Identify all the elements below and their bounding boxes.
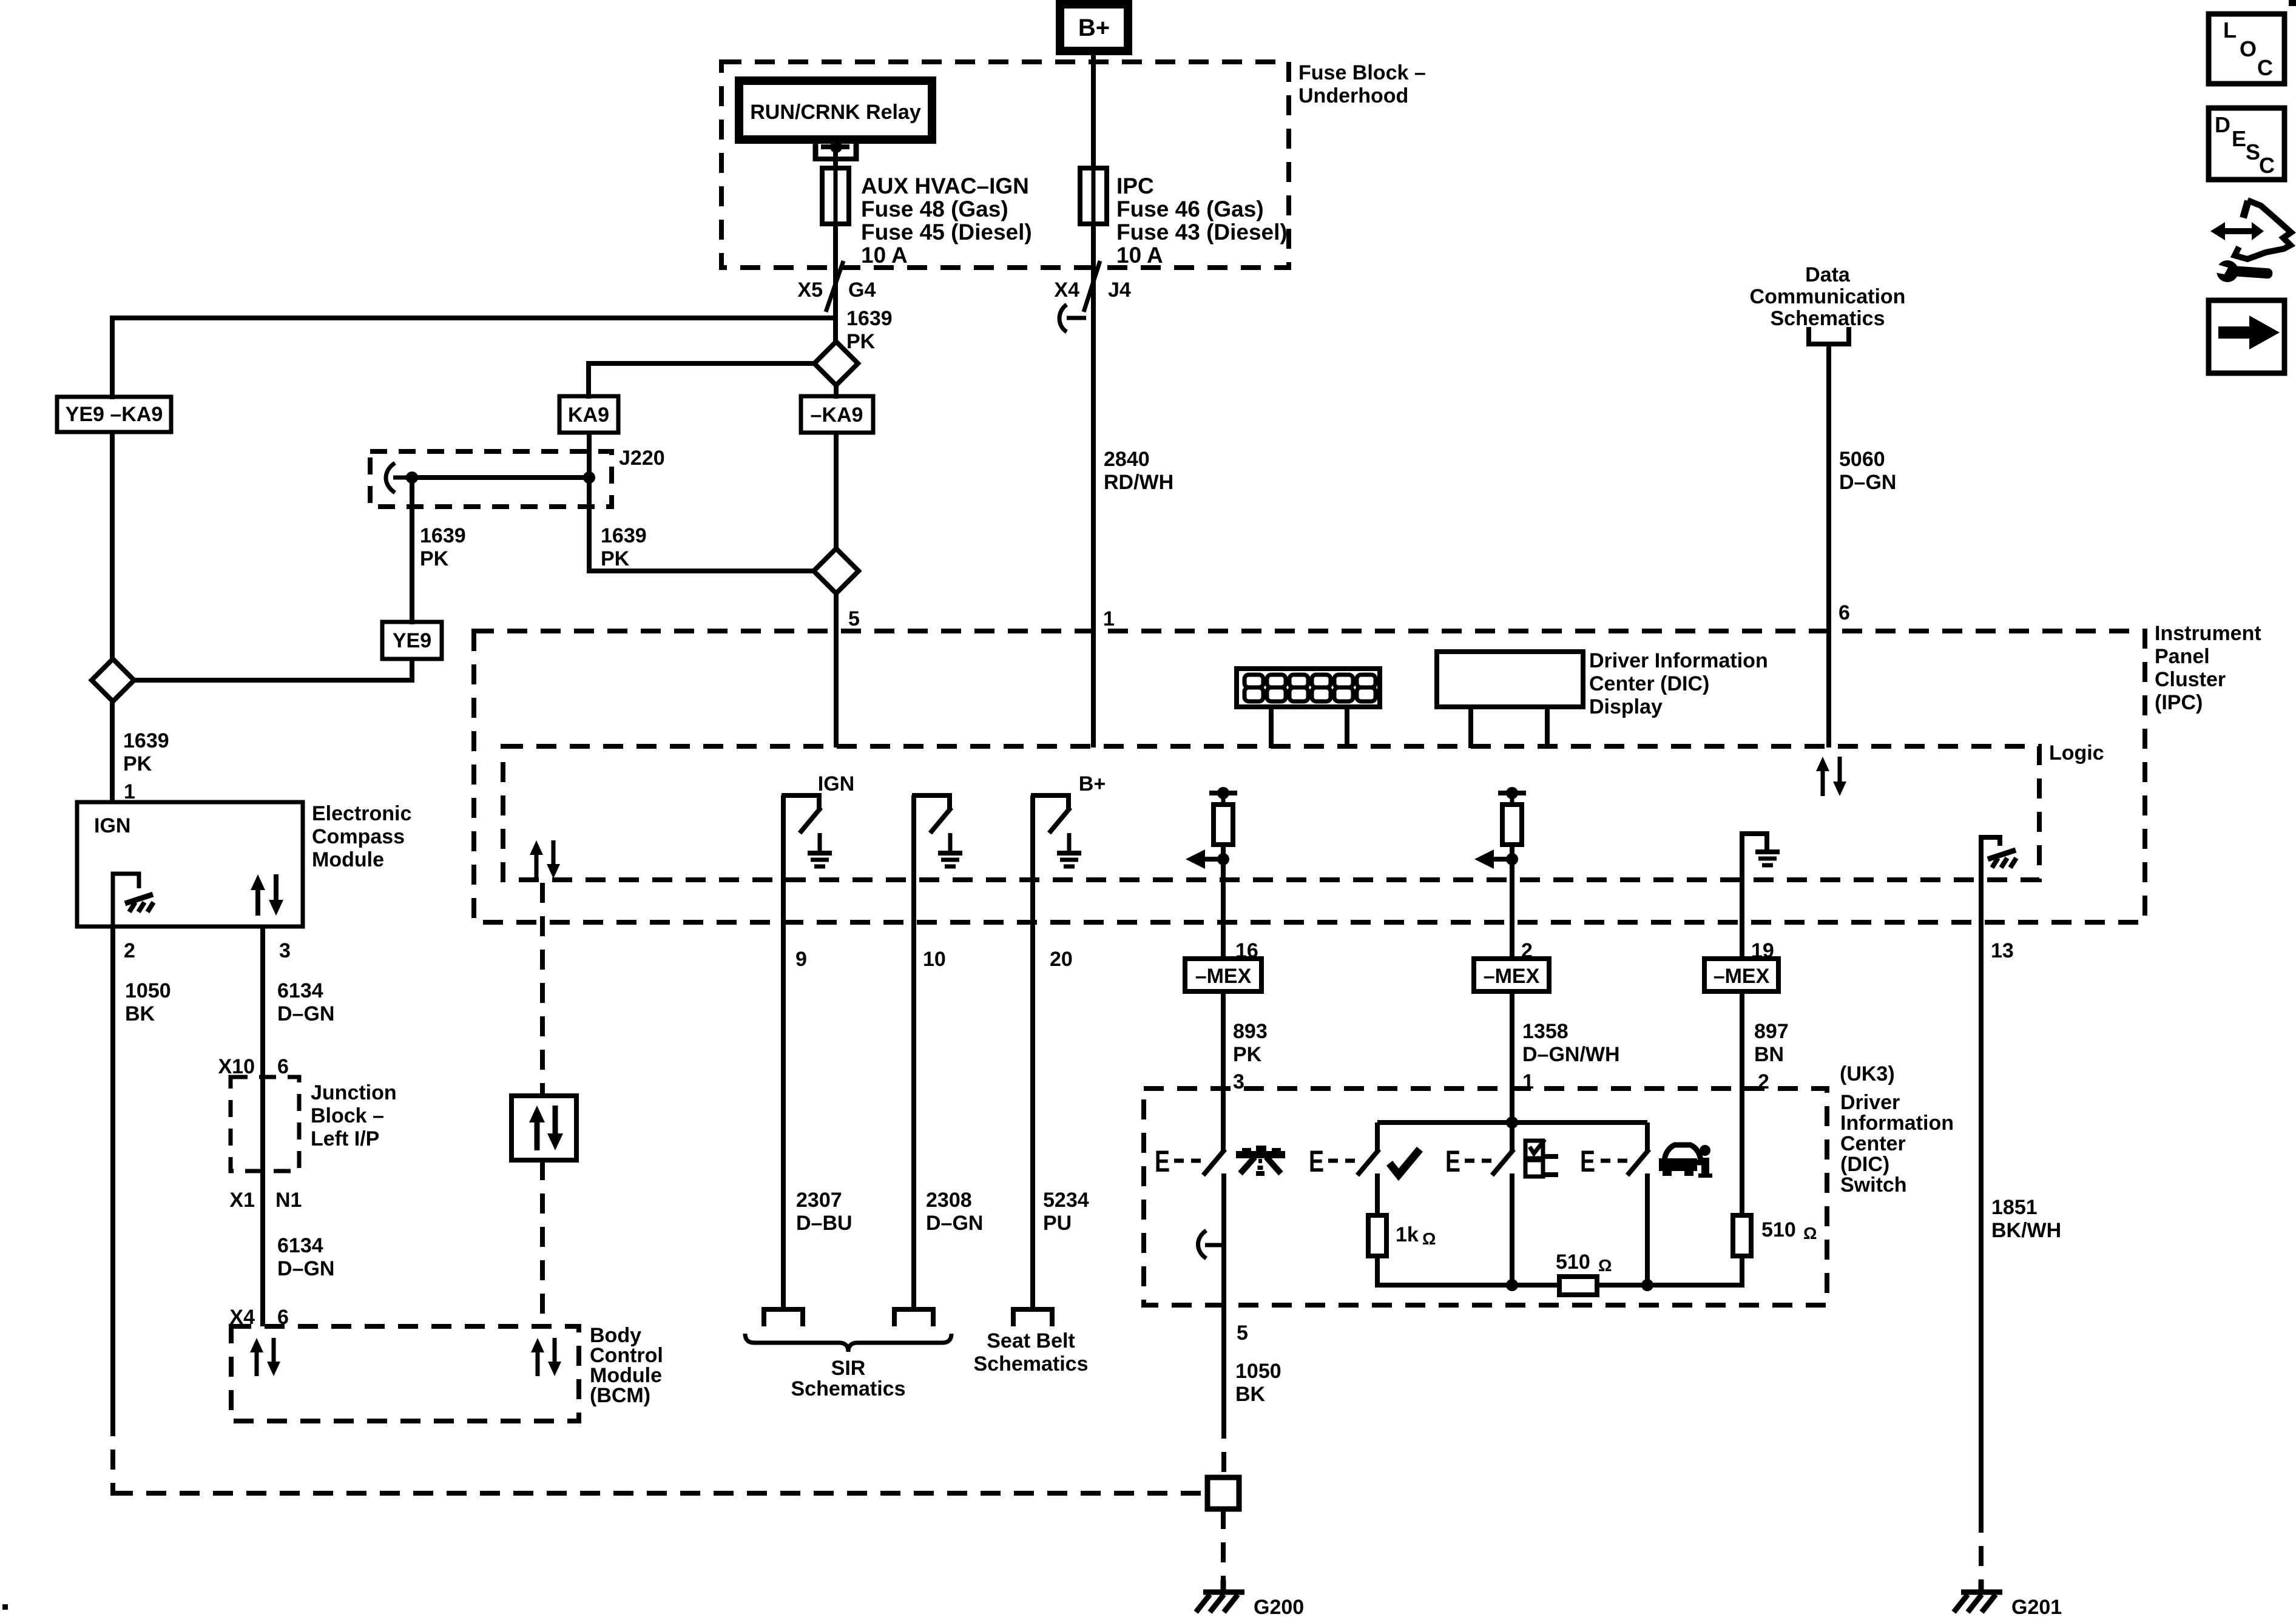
svg-text:Logic: Logic <box>2049 741 2104 765</box>
svg-text:Fuse 46 (Gas): Fuse 46 (Gas) <box>1116 197 1264 221</box>
inline connector hook in J220 <box>386 463 405 493</box>
svg-text:1639: 1639 <box>846 307 893 330</box>
dashed ground distribution line <box>113 1491 1205 1496</box>
wire fuse 48 to splice S1 <box>833 224 838 343</box>
wire J220 to YE9 <box>410 478 414 624</box>
splice pack square <box>1207 1477 1239 1509</box>
svg-text:Schematics: Schematics <box>791 1377 906 1400</box>
svg-text:(BCM): (BCM) <box>590 1384 650 1407</box>
BCM serial arrows left <box>250 1338 280 1376</box>
svg-text:Data: Data <box>1805 263 1851 286</box>
svg-text:BN: BN <box>1754 1043 1784 1066</box>
wire bottom link bar <box>1377 1283 1742 1288</box>
legend box LOC <box>2209 14 2284 84</box>
svg-text:1358: 1358 <box>1522 1020 1568 1043</box>
svg-text:Electronic: Electronic <box>312 802 411 825</box>
svg-text:1851: 1851 <box>1991 1196 2038 1219</box>
svg-text:E: E <box>1580 1144 1595 1178</box>
switch to ground pin 20 <box>1031 795 1071 1309</box>
svg-text:5: 5 <box>848 607 860 630</box>
icon checkmark <box>1389 1149 1420 1175</box>
svg-text:1639: 1639 <box>420 524 466 547</box>
svg-text:Ω: Ω <box>1422 1229 1436 1248</box>
svg-text:G201: G201 <box>2011 1596 2062 1617</box>
Electronic Compass Module box <box>77 802 303 927</box>
svg-text:Fuse Block –: Fuse Block – <box>1298 61 1426 84</box>
resistor R 1k <box>1368 1215 1386 1256</box>
off-page connector bracket <box>894 1309 933 1326</box>
svg-text:RD/WH: RD/WH <box>1104 471 1173 494</box>
svg-text:PK: PK <box>1233 1043 1262 1066</box>
svg-text:3: 3 <box>279 939 291 962</box>
legend box DESC <box>2209 108 2284 180</box>
svg-text:(UK3): (UK3) <box>1840 1062 1895 1085</box>
svg-text:510: 510 <box>1556 1251 1590 1274</box>
Body Control Module BCM dashed box <box>231 1326 579 1421</box>
svg-text:PK: PK <box>601 547 630 570</box>
off-page connector bracket <box>764 1309 803 1326</box>
telltale driver pin 16 <box>1186 787 1237 959</box>
fuse F48 AUX HVAC-IGN <box>822 168 849 224</box>
svg-text:X10: X10 <box>218 1055 255 1078</box>
BCM serial arrows right <box>531 1338 561 1376</box>
Fuse Block - Underhood dashed box <box>721 62 1289 268</box>
svg-text:Instrument: Instrument <box>2155 622 2261 645</box>
wire 1050 BK from compass pin 2 <box>110 927 115 1416</box>
wire B+ down to IPC fuse <box>1091 51 1096 170</box>
compass internal ground trace <box>113 874 139 927</box>
svg-text:Center: Center <box>1840 1132 1906 1155</box>
Junction Block - Left I/P dashed box <box>231 1077 299 1171</box>
svg-text:PU: PU <box>1043 1212 1072 1235</box>
svg-text:X4: X4 <box>1054 279 1079 302</box>
svg-text:D–GN: D–GN <box>1839 471 1896 494</box>
junction dot top bar <box>1506 1116 1518 1129</box>
wire relay to fuse 48 <box>833 149 838 170</box>
svg-text:Ω: Ω <box>1803 1224 1817 1243</box>
icon trip odometer <box>1236 1146 1285 1176</box>
ground G201 <box>1954 1580 2002 1612</box>
dash E1b <box>1191 1159 1201 1163</box>
svg-text:Schematics: Schematics <box>1771 307 1885 330</box>
wire 897 BN through 510 ohm <box>1740 991 1744 1288</box>
switch to ground pin 9 <box>782 795 822 1309</box>
svg-text:C: C <box>2257 55 2273 80</box>
svg-text:6134: 6134 <box>277 1234 323 1257</box>
svg-text:10 A: 10 A <box>861 243 908 268</box>
resistor R 510 horizontal <box>1559 1277 1597 1295</box>
wire inside J220 <box>405 475 590 480</box>
svg-text:PK: PK <box>123 752 152 775</box>
wire KA9 down through J220 <box>587 433 592 573</box>
wire 1050 BK dashed to splice pack <box>1221 1419 1226 1477</box>
icon car info <box>1659 1145 1712 1178</box>
svg-text:X1: X1 <box>229 1189 255 1212</box>
svg-text:510: 510 <box>1761 1218 1796 1241</box>
svg-text:(IPC): (IPC) <box>2155 691 2203 714</box>
svg-text:6: 6 <box>1838 601 1850 624</box>
svg-text:SIR: SIR <box>831 1357 866 1380</box>
svg-text:Junction: Junction <box>311 1081 397 1104</box>
svg-text:J4: J4 <box>1108 279 1131 302</box>
svg-text:B+: B+ <box>1079 772 1106 795</box>
svg-text:O: O <box>2240 36 2257 61</box>
svg-text:10 A: 10 A <box>1116 243 1163 268</box>
svg-text:1639: 1639 <box>123 729 169 752</box>
dash E2a <box>1328 1159 1338 1163</box>
svg-text:BK/WH: BK/WH <box>1991 1219 2061 1242</box>
net box KA9 <box>559 396 618 433</box>
svg-text:Module: Module <box>312 848 384 871</box>
svg-text:J220: J220 <box>619 447 665 470</box>
wire 1050 BK dashed <box>110 1416 115 1496</box>
icon checklist <box>1525 1139 1558 1176</box>
junction dot J220 left <box>406 471 418 484</box>
connector box -MEX pin 2 <box>1474 959 1549 991</box>
wire left trunk to S3 <box>110 432 115 661</box>
svg-text:RUN/CRNK Relay: RUN/CRNK Relay <box>750 101 921 124</box>
svg-text:L: L <box>2223 18 2237 42</box>
dashed serial data line IPC to arrow box <box>540 883 545 1096</box>
svg-text:Ω: Ω <box>1598 1256 1612 1275</box>
wire KA9 leg to S2 <box>589 569 814 573</box>
wire top link bar <box>1377 1120 1647 1125</box>
svg-text:KA9: KA9 <box>568 403 609 427</box>
svg-text:20: 20 <box>1050 948 1073 971</box>
svg-text:G4: G4 <box>848 279 876 302</box>
svg-text:2307: 2307 <box>796 1189 842 1212</box>
svg-text:S: S <box>2246 140 2260 164</box>
switch menu-select <box>1492 991 1514 1288</box>
wire 1k to bottom bar <box>1375 1256 1380 1288</box>
splice S1 <box>814 342 858 385</box>
Logic dashed box <box>503 746 2039 880</box>
icon connector-end-view with wrench <box>2210 200 2291 282</box>
svg-text:G200: G200 <box>1254 1596 1304 1617</box>
serial data arrow box <box>512 1096 576 1160</box>
Driver Information Center DIC Switch dashed box <box>1144 1089 1827 1305</box>
logic serial arrows <box>530 840 560 879</box>
svg-text:1050: 1050 <box>1235 1360 1281 1383</box>
Instrument Panel Cluster IPC dashed box <box>474 631 2145 922</box>
dashed serial data line arrow box to BCM <box>540 1160 545 1326</box>
fuse F46 IPC <box>1080 168 1107 224</box>
svg-text:YE9 –KA9: YE9 –KA9 <box>66 403 163 426</box>
inline connector hook at J4 <box>1059 305 1086 332</box>
svg-text:2: 2 <box>124 939 135 962</box>
wire S1 to KA9 <box>589 363 814 399</box>
svg-text:Information: Information <box>1840 1112 1954 1135</box>
svg-text:N1: N1 <box>275 1189 302 1212</box>
relay RUN/CRNK <box>739 81 932 140</box>
svg-text:D–GN: D–GN <box>277 1002 334 1025</box>
dash E4a <box>1601 1159 1610 1163</box>
svg-text:Block –: Block – <box>311 1104 384 1127</box>
compass serial data arrows <box>251 874 283 916</box>
svg-text:Seat Belt: Seat Belt <box>987 1329 1075 1352</box>
svg-text:1639: 1639 <box>601 524 647 547</box>
ground G200 <box>1196 1580 1244 1612</box>
svg-text:D–GN: D–GN <box>926 1212 983 1235</box>
wire S3 to compass pin 1 <box>110 701 115 802</box>
svg-text:X5: X5 <box>797 279 823 302</box>
svg-text:Display: Display <box>1589 695 1663 718</box>
DIC seven-segment display <box>1237 669 1380 707</box>
svg-text:BK: BK <box>125 1002 155 1025</box>
chassis ground pin 13 <box>1981 835 2000 1513</box>
svg-text:Schematics: Schematics <box>974 1352 1089 1376</box>
connector box -MEX pin 19 <box>1704 959 1778 991</box>
wire IGN into IPC <box>834 593 839 748</box>
svg-text:D–BU: D–BU <box>796 1212 853 1235</box>
switch acknowledge <box>1357 1122 1379 1218</box>
off-page connector bracket <box>1809 327 1849 344</box>
wire YE9 to splice S3 <box>134 659 412 680</box>
svg-text:–KA9: –KA9 <box>811 403 863 427</box>
page dot artifact <box>2 1604 8 1610</box>
dash E1a <box>1174 1159 1184 1163</box>
svg-text:Fuse 45 (Diesel): Fuse 45 (Diesel) <box>861 220 1032 245</box>
svg-text:(DIC): (DIC) <box>1840 1153 1889 1176</box>
ground hook pin 19 <box>1742 831 1767 959</box>
svg-text:–MEX: –MEX <box>1195 965 1252 988</box>
serial arrows at pin 6 <box>1816 757 1846 796</box>
splice S3 <box>92 659 134 701</box>
display leg right <box>1345 707 1349 748</box>
off-page connector bracket <box>1013 1309 1052 1326</box>
svg-text:897: 897 <box>1754 1020 1789 1043</box>
svg-text:13: 13 <box>1991 939 2014 962</box>
svg-text:YE9: YE9 <box>393 629 431 652</box>
svg-text:1: 1 <box>124 780 135 803</box>
connector X4-J4 slash <box>1084 261 1100 312</box>
svg-text:E: E <box>1155 1144 1170 1178</box>
junction dot bottom bar left <box>1506 1279 1518 1291</box>
dashed wire to G201 <box>1979 1513 1984 1580</box>
svg-text:BK: BK <box>1235 1383 1266 1406</box>
legend box next-page arrow <box>2209 300 2284 373</box>
svg-text:C: C <box>2259 153 2275 178</box>
junction block J220 dashed box <box>370 451 612 507</box>
svg-text:Center (DIC): Center (DIC) <box>1589 672 1709 695</box>
svg-text:Driver: Driver <box>1840 1091 1900 1114</box>
DIC display box <box>1437 652 1583 707</box>
svg-text:5234: 5234 <box>1043 1189 1089 1212</box>
svg-text:E: E <box>1445 1144 1460 1178</box>
switch trip-reset <box>1203 991 1225 1419</box>
junction dot J220 right <box>583 471 595 484</box>
svg-text:3: 3 <box>1233 1070 1244 1093</box>
wire 1639 PK long run to YE9-KA9 <box>112 318 836 399</box>
inline connector hook below switch 1 <box>1198 1230 1222 1258</box>
svg-text:D–GN: D–GN <box>277 1257 334 1280</box>
switch vehicle-information <box>1627 1122 1649 1288</box>
svg-text:PK: PK <box>420 547 449 570</box>
junction dot bottom bar right <box>1641 1279 1653 1291</box>
svg-text:1k: 1k <box>1396 1223 1419 1246</box>
net box YE9 <box>382 622 442 659</box>
splice S2 <box>814 549 859 593</box>
brace SIR <box>745 1334 951 1352</box>
svg-text:1050: 1050 <box>125 979 171 1002</box>
dash E4b <box>1618 1159 1627 1163</box>
connector X5-G4 slash <box>826 261 843 312</box>
svg-text:–MEX: –MEX <box>1714 965 1770 988</box>
DIC display leg left <box>1468 707 1473 748</box>
svg-text:D: D <box>2215 112 2230 137</box>
svg-text:IGN: IGN <box>94 814 130 837</box>
svg-text:AUX HVAC–IGN: AUX HVAC–IGN <box>861 174 1029 198</box>
svg-text:E: E <box>1309 1144 1324 1178</box>
wire -KA9 to splice S2 <box>834 433 839 551</box>
wire 6134 D-GN pin 3 to BCM <box>260 927 265 1326</box>
svg-text:6: 6 <box>277 1055 289 1078</box>
svg-text:Communication: Communication <box>1750 285 1906 308</box>
svg-text:5: 5 <box>1237 1322 1248 1345</box>
wire S1 to -KA9 <box>834 385 839 399</box>
svg-text:10: 10 <box>923 948 946 971</box>
DIC display leg right <box>1545 707 1550 748</box>
resistor R 510 right <box>1733 1215 1751 1256</box>
svg-text:Left I/P: Left I/P <box>311 1127 379 1150</box>
dashed wire to G200 <box>1221 1509 1226 1580</box>
dash E3a <box>1465 1159 1474 1163</box>
relay output pin bracket <box>813 140 859 161</box>
svg-text:IGN: IGN <box>818 772 854 795</box>
switch to ground pin 10 <box>912 795 952 1309</box>
svg-text:6134: 6134 <box>277 979 323 1002</box>
svg-text:2840: 2840 <box>1104 448 1150 471</box>
svg-text:–MEX: –MEX <box>1484 965 1540 988</box>
svg-text:D–GN/WH: D–GN/WH <box>1522 1043 1620 1066</box>
svg-text:Fuse 48 (Gas): Fuse 48 (Gas) <box>861 197 1008 221</box>
svg-text:Fuse 43 (Diesel): Fuse 43 (Diesel) <box>1116 220 1288 245</box>
svg-text:PK: PK <box>846 330 876 353</box>
power feed B+ box <box>1060 4 1128 51</box>
svg-text:E: E <box>2232 126 2246 151</box>
net box YE9 -KA9 <box>57 397 171 432</box>
svg-text:Panel: Panel <box>2155 645 2210 668</box>
wire 2840 RD/WH B+ to IPC <box>1091 224 1096 748</box>
compass internal chassis ground <box>125 894 154 912</box>
telltale driver pin 2 <box>1474 787 1526 959</box>
svg-text:B+: B+ <box>1078 15 1110 41</box>
wire 5060 D-GN <box>1826 344 1831 748</box>
svg-text:2308: 2308 <box>926 1189 972 1212</box>
svg-text:Compass: Compass <box>312 825 405 848</box>
svg-text:IPC: IPC <box>1116 174 1154 198</box>
svg-text:Cluster: Cluster <box>2155 668 2226 691</box>
svg-text:Switch: Switch <box>1840 1173 1907 1197</box>
svg-text:9: 9 <box>795 948 807 971</box>
svg-text:1: 1 <box>1103 607 1115 630</box>
svg-text:893: 893 <box>1233 1020 1268 1043</box>
display leg left <box>1269 707 1274 748</box>
net box -KA9 <box>801 396 873 433</box>
svg-text:5060: 5060 <box>1839 448 1885 471</box>
connector box -MEX pin 16 <box>1185 959 1261 991</box>
dash E3b <box>1482 1159 1491 1163</box>
dash E2b <box>1345 1159 1355 1163</box>
svg-text:Underhood: Underhood <box>1298 84 1408 107</box>
svg-text:Driver Information: Driver Information <box>1589 649 1768 672</box>
